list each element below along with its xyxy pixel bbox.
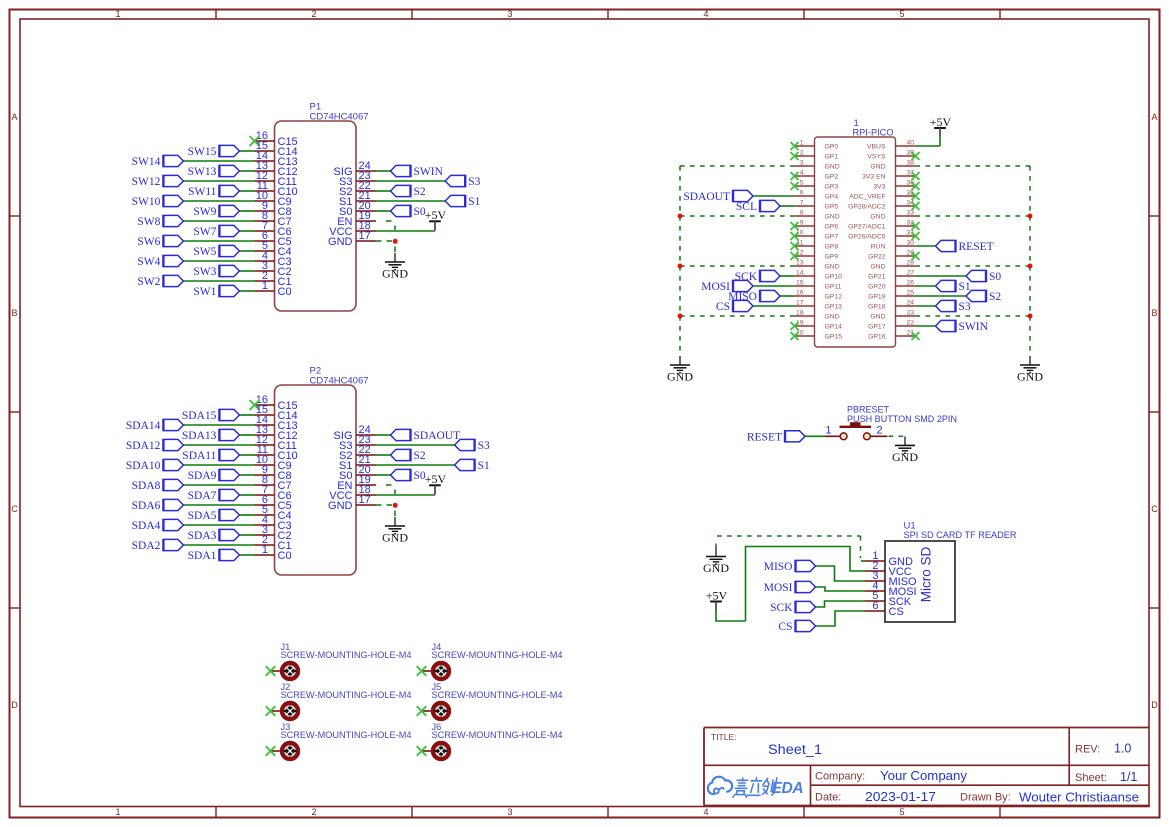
svg-text:SCREW-MOUNTING-HOLE-M4: SCREW-MOUNTING-HOLE-M4 bbox=[432, 690, 563, 700]
net flag S3 bbox=[455, 439, 490, 452]
junction dot on right GND bus bbox=[1028, 214, 1033, 219]
svg-text:SW3: SW3 bbox=[193, 266, 216, 278]
svg-text:GP2: GP2 bbox=[825, 174, 839, 181]
net flag SDA14 bbox=[126, 419, 184, 432]
svg-text:GP1: GP1 bbox=[825, 154, 839, 161]
wire SW10 to P1 pin 10 bbox=[183, 200, 254, 202]
svg-text:GP5: GP5 bbox=[825, 204, 839, 211]
RPI-PICO pin 25 (GP19) bbox=[868, 290, 915, 301]
wire SDA8 to P2 pin 8 bbox=[183, 484, 254, 486]
svg-text:3: 3 bbox=[800, 160, 804, 167]
mounting hole J3 symbol bbox=[271, 743, 298, 759]
net flag SDA11 bbox=[182, 449, 239, 462]
wire SDA14 to P2 pin 14 bbox=[183, 424, 254, 426]
svg-text:+5V: +5V bbox=[425, 472, 447, 486]
svg-text:3V3 EN: 3V3 EN bbox=[862, 174, 886, 181]
svg-text:GND: GND bbox=[825, 314, 840, 321]
wire +5V to U1 VCC pin bbox=[716, 547, 865, 622]
wire P2 to net flag S3 bbox=[376, 444, 455, 446]
P1 pin 21 (S1) bbox=[339, 190, 376, 208]
net flag SW11 bbox=[188, 185, 239, 198]
RPI-PICO pin 6 (GP4) bbox=[795, 190, 839, 201]
wire SCK to RPI-PICO bbox=[780, 275, 795, 277]
P1 pin 1 (C0) bbox=[255, 280, 292, 298]
svg-text:SW2: SW2 bbox=[137, 276, 160, 288]
RPI-PICO pin 11 (GP8) bbox=[795, 240, 839, 251]
wire P1 to net flag SWIN bbox=[376, 170, 391, 172]
RPI-PICO pin 31 (GP26/ADC0) bbox=[848, 230, 915, 241]
svg-text:Micro SD: Micro SD bbox=[919, 547, 934, 603]
P1 pin 7 (C6) bbox=[255, 220, 292, 238]
svg-text:GP15: GP15 bbox=[825, 334, 843, 341]
P2 pin 24 (SIG) bbox=[334, 424, 376, 442]
svg-text:30: 30 bbox=[906, 240, 914, 247]
svg-text:MOSI: MOSI bbox=[701, 281, 730, 293]
no-connect X at RPI-PICO pin 34 bbox=[912, 202, 920, 210]
mounting hole J6 symbol bbox=[422, 743, 449, 759]
no-connect X at P1 pin 16 bbox=[250, 136, 260, 146]
dashed GND wire RPI-PICO pin 3 bbox=[680, 165, 795, 167]
dashed wire stub at P2 EN pin 19 bbox=[386, 484, 392, 486]
no-connect X at RPI-PICO pin 10 bbox=[791, 232, 799, 240]
P2 pin 5 (C4) bbox=[255, 504, 292, 522]
push button PBRESET symbol bbox=[825, 422, 887, 439]
svg-text:S2: S2 bbox=[414, 186, 426, 198]
net flag SW3 bbox=[193, 265, 239, 278]
svg-text:1: 1 bbox=[262, 280, 268, 292]
net flag SDA5 bbox=[188, 509, 240, 522]
RPI-PICO pin 1 (GP0) bbox=[795, 140, 839, 151]
wire P1 to net flag S1 bbox=[376, 200, 445, 202]
svg-text:Sheet_1: Sheet_1 bbox=[768, 742, 822, 757]
svg-text:4: 4 bbox=[703, 9, 708, 19]
svg-text:GP28/ADC2: GP28/ADC2 bbox=[848, 204, 886, 211]
svg-text:A: A bbox=[11, 112, 17, 122]
svg-text:RPI-PICO: RPI-PICO bbox=[853, 128, 894, 139]
svg-text:14: 14 bbox=[796, 270, 804, 277]
svg-text:GP14: GP14 bbox=[825, 324, 843, 331]
P2 pin 7 (C6) bbox=[255, 484, 292, 502]
multiplexer P1 CD74HC4067 body bbox=[275, 102, 369, 312]
microcontroller RPI-PICO body bbox=[815, 118, 896, 347]
svg-text:+5V: +5V bbox=[706, 588, 728, 602]
svg-text:TITLE:: TITLE: bbox=[711, 732, 737, 742]
svg-text:SDAOUT: SDAOUT bbox=[683, 191, 730, 203]
P2 pin 21 (S1) bbox=[339, 454, 376, 472]
net flag SDA2 bbox=[132, 539, 184, 552]
wire SW11 to P1 pin 11 bbox=[239, 190, 254, 192]
svg-text:GND: GND bbox=[892, 450, 918, 464]
no-connect X at RPI-PICO pin 1 bbox=[791, 142, 799, 150]
svg-text:SW15: SW15 bbox=[188, 146, 217, 158]
no-connect X at J5 bbox=[417, 706, 427, 716]
wire SDA15 to P2 pin 15 bbox=[239, 414, 254, 416]
wire SDA10 to P2 pin 10 bbox=[183, 464, 254, 466]
P2 pin 1 (C0) bbox=[255, 544, 292, 562]
net flag MISO bbox=[728, 290, 780, 303]
P1 pin 10 (C9) bbox=[255, 190, 292, 208]
RPI-PICO pin 19 (GP14) bbox=[795, 320, 843, 331]
svg-text:GP6: GP6 bbox=[825, 224, 839, 231]
svg-text:MOSI: MOSI bbox=[764, 582, 793, 594]
P2 pin 20 (S0) bbox=[339, 464, 376, 482]
mounting hole J5 labels bbox=[432, 682, 563, 700]
net flag SDA1 bbox=[188, 549, 240, 562]
title block frame bbox=[704, 728, 1149, 806]
svg-text:B: B bbox=[11, 308, 17, 318]
net flag RESET at push button bbox=[747, 430, 805, 443]
wire P1 to net flag S3 bbox=[376, 180, 445, 182]
RPI-PICO pin 35 (ADC_VREF) bbox=[849, 190, 915, 201]
net flag SDA15 bbox=[182, 409, 240, 422]
svg-text:CS: CS bbox=[889, 606, 904, 618]
wire SDA11 to P2 pin 11 bbox=[239, 454, 254, 456]
wire P1 VCC to +5V bbox=[376, 230, 435, 232]
net flag SW1 bbox=[193, 285, 239, 298]
net flag SCK at U1 bbox=[770, 601, 815, 614]
svg-text:17: 17 bbox=[796, 300, 804, 307]
junction dot at P2 GND net bbox=[393, 503, 398, 508]
no-connect X at RPI-PICO pin 12 bbox=[791, 252, 799, 260]
RPI-PICO pin 28 (GND) bbox=[870, 260, 915, 271]
net flag SDA12 bbox=[126, 439, 184, 452]
RPI-PICO pin 40 (VBUS) bbox=[867, 140, 916, 151]
svg-text:Date:: Date: bbox=[815, 792, 841, 804]
RPI-PICO pin 13 (GND) bbox=[795, 260, 840, 271]
wire SDA13 to P2 pin 13 bbox=[239, 434, 254, 436]
net flag S1 bbox=[445, 195, 480, 208]
no-connect X at J4 bbox=[417, 666, 427, 676]
svg-text:C0: C0 bbox=[278, 550, 292, 562]
ground symbol at push button bbox=[892, 436, 918, 464]
EasyEDA logo text bbox=[733, 778, 804, 797]
net flag SDA10 bbox=[126, 459, 184, 472]
no-connect X at RPI-PICO pin 36 bbox=[912, 182, 920, 190]
P1 pin 19 (EN) bbox=[337, 210, 376, 228]
ground symbol left of RPI-PICO bbox=[667, 356, 693, 384]
svg-text:CS: CS bbox=[778, 621, 792, 633]
svg-text:2: 2 bbox=[877, 425, 883, 437]
wire SDA3 to P2 pin 3 bbox=[239, 534, 254, 536]
P2 pin 18 (VCC) bbox=[329, 484, 376, 502]
wire MOSI flag to U1 bbox=[816, 587, 866, 591]
P2 pin 6 (C5) bbox=[255, 494, 292, 512]
RPI-PICO pin 21 (GP16) bbox=[868, 330, 915, 341]
svg-text:SW11: SW11 bbox=[188, 186, 217, 198]
RPI-PICO pin 20 (GP15) bbox=[795, 330, 843, 341]
svg-text:SDA12: SDA12 bbox=[126, 440, 161, 452]
svg-text:6: 6 bbox=[872, 600, 878, 612]
P1 pin 23 (S3) bbox=[339, 170, 376, 188]
svg-text:RUN: RUN bbox=[871, 244, 886, 251]
svg-text:GND: GND bbox=[703, 561, 729, 575]
svg-text:1: 1 bbox=[800, 140, 804, 147]
no-connect X at RPI-PICO pin 35 bbox=[912, 192, 920, 200]
svg-text:GP12: GP12 bbox=[825, 294, 843, 301]
wire SW12 to P1 pin 12 bbox=[183, 180, 254, 182]
dashed GND wire RPI-PICO pin 38 bbox=[916, 165, 1031, 167]
dashed wire push button pin 2 to ground bbox=[889, 435, 906, 437]
no-connect X at J3 bbox=[266, 746, 276, 756]
wire RPI-PICO to net flag S1 bbox=[916, 285, 936, 287]
svg-text:+5V: +5V bbox=[425, 208, 447, 222]
RPI-PICO pin 9 (GP6) bbox=[795, 220, 839, 231]
RPI-PICO pin 33 (GND) bbox=[870, 210, 915, 221]
net flag SW12 bbox=[132, 175, 184, 188]
wire SDA4 to P2 pin 4 bbox=[183, 524, 254, 526]
title block Company field bbox=[815, 769, 968, 783]
wire P2 to net flag S1 bbox=[376, 464, 455, 466]
svg-text:SCK: SCK bbox=[770, 602, 793, 614]
svg-text:2: 2 bbox=[800, 150, 804, 157]
no-connect X at RPI-PICO pin 37 bbox=[912, 172, 920, 180]
svg-text:S0: S0 bbox=[989, 271, 1001, 283]
wire SW13 to P1 pin 13 bbox=[239, 170, 254, 172]
P1 pin 3 (C2) bbox=[255, 260, 292, 278]
svg-text:CD74HC4067: CD74HC4067 bbox=[310, 376, 369, 387]
P1 pin 24 (SIG) bbox=[334, 160, 376, 178]
wire RPI-PICO to net flag S2 bbox=[916, 295, 967, 297]
P2 pin 13 (C12) bbox=[255, 424, 298, 442]
svg-text:ADC_VREF: ADC_VREF bbox=[849, 194, 885, 201]
net flag SWIN bbox=[391, 165, 444, 178]
svg-text:SCL: SCL bbox=[736, 201, 757, 213]
svg-text:GP0: GP0 bbox=[825, 144, 839, 151]
+5V power symbol at P1 bbox=[425, 208, 447, 231]
no-connect X at RPI-PICO pin 19 bbox=[791, 322, 799, 330]
wire MOSI to RPI-PICO bbox=[753, 285, 795, 287]
no-connect X at RPI-PICO pin 39 bbox=[912, 152, 920, 160]
RPI-PICO pin 26 (GP20) bbox=[868, 280, 915, 291]
svg-text:SDA13: SDA13 bbox=[182, 430, 217, 442]
wire P2 to net flag S2 bbox=[376, 454, 391, 456]
net flag SW6 bbox=[137, 235, 183, 248]
wire SDA6 to P2 pin 6 bbox=[183, 504, 254, 506]
svg-text:GP27/ADC1: GP27/ADC1 bbox=[848, 224, 886, 231]
svg-text:RESET: RESET bbox=[959, 241, 994, 253]
dashed GND bus left vertical bbox=[679, 166, 681, 352]
svg-text:S1: S1 bbox=[478, 460, 490, 472]
svg-text:SCREW-MOUNTING-HOLE-M4: SCREW-MOUNTING-HOLE-M4 bbox=[281, 650, 412, 660]
svg-text:SW12: SW12 bbox=[132, 176, 161, 188]
mounting hole J4 symbol bbox=[422, 663, 449, 679]
title block REV field bbox=[1075, 742, 1131, 756]
wire P2 VCC to +5V bbox=[376, 494, 435, 496]
wire SDA12 to P2 pin 12 bbox=[183, 444, 254, 446]
svg-text:SW13: SW13 bbox=[188, 166, 217, 178]
wire SW9 to P1 pin 9 bbox=[239, 210, 254, 212]
svg-text:17: 17 bbox=[359, 494, 371, 506]
svg-text:SDA8: SDA8 bbox=[132, 480, 161, 492]
net flag SDA6 bbox=[132, 499, 184, 512]
dashed GND wire RPI-PICO pin 13 bbox=[680, 265, 795, 267]
RPI-PICO pin 39 (VSYS) bbox=[867, 150, 915, 161]
svg-text:GND: GND bbox=[870, 214, 885, 221]
dashed wire segment near P2 VCC bbox=[394, 490, 396, 495]
net flag S2 bbox=[391, 185, 426, 198]
svg-text:GND: GND bbox=[667, 370, 693, 384]
svg-text:SW9: SW9 bbox=[193, 206, 216, 218]
RPI-PICO pin 29 (GP22) bbox=[868, 250, 915, 261]
wire SW14 to P1 pin 14 bbox=[183, 160, 254, 162]
wire SW6 to P1 pin 6 bbox=[183, 240, 254, 242]
svg-text:4: 4 bbox=[800, 170, 804, 177]
P1 pin 20 (S0) bbox=[339, 200, 376, 218]
P1 pin 2 (C1) bbox=[255, 270, 292, 288]
wire P2 to net flag S0 bbox=[376, 474, 391, 476]
no-connect X at J1 bbox=[266, 666, 276, 676]
svg-text:16: 16 bbox=[796, 290, 804, 297]
wire MISO to RPI-PICO bbox=[780, 295, 795, 297]
EasyEDA logo cloud icon bbox=[708, 777, 732, 795]
RPI-PICO pin 22 (GP17) bbox=[868, 320, 915, 331]
net flag SCK bbox=[735, 270, 780, 283]
SD card reader U1 labels bbox=[904, 521, 1017, 541]
dashed wire at P1 GND pin 17 bbox=[376, 240, 392, 242]
no-connect X at RPI-PICO pin 32 bbox=[912, 222, 920, 230]
P2 pin 9 (C8) bbox=[255, 464, 292, 482]
P2 pin 8 (C7) bbox=[255, 474, 292, 492]
svg-text:SW7: SW7 bbox=[193, 226, 216, 238]
svg-text:1.0: 1.0 bbox=[1114, 742, 1131, 756]
svg-text:RESET: RESET bbox=[747, 431, 782, 443]
wire MISO flag to U1 bbox=[816, 566, 866, 581]
mounting hole J2 symbol bbox=[271, 703, 298, 719]
svg-text:GP3: GP3 bbox=[825, 184, 839, 191]
svg-text:2: 2 bbox=[311, 807, 316, 817]
wire SW3 to P1 pin 3 bbox=[239, 270, 254, 272]
net flag MISO at U1 bbox=[764, 560, 816, 573]
P1 pin 22 (S2) bbox=[339, 180, 376, 198]
svg-text:SW4: SW4 bbox=[137, 256, 160, 268]
junction dot on left GND bus bbox=[678, 314, 683, 319]
svg-text:GP9: GP9 bbox=[825, 254, 839, 261]
wire RPI-PICO to net flag SWIN bbox=[916, 325, 936, 327]
dashed wire U1 GND pin to ground bbox=[717, 536, 865, 561]
dashed wire segment near P1 VCC bbox=[394, 226, 396, 231]
+5V power symbol at P2 bbox=[425, 472, 447, 495]
dashed GND wire RPI-PICO pin 18 bbox=[680, 315, 795, 317]
ground symbol below P2 bbox=[382, 517, 408, 545]
mounting hole J4 labels bbox=[432, 642, 563, 660]
net flag S0 bbox=[391, 205, 426, 218]
RPI-PICO pin 7 (GP5) bbox=[795, 200, 839, 211]
ground symbol right of RPI-PICO bbox=[1017, 356, 1043, 384]
P2 pin 19 (EN) bbox=[337, 474, 376, 492]
svg-text:SDA14: SDA14 bbox=[126, 420, 161, 432]
U1 pin 3 (MISO) bbox=[865, 570, 917, 588]
P2 pin 14 (C13) bbox=[255, 414, 298, 432]
junction dot on left GND bus bbox=[678, 214, 683, 219]
no-connect X at RPI-PICO pin 11 bbox=[791, 242, 799, 250]
net flag SW2 bbox=[137, 275, 183, 288]
svg-text:25: 25 bbox=[906, 290, 914, 297]
svg-text:13: 13 bbox=[796, 260, 804, 267]
svg-text:GP26/ADC0: GP26/ADC0 bbox=[848, 234, 886, 241]
svg-text:GP19: GP19 bbox=[868, 294, 886, 301]
svg-text:GND: GND bbox=[825, 214, 840, 221]
P2 pin 11 (C10) bbox=[255, 444, 298, 462]
net flag SW7 bbox=[193, 225, 239, 238]
svg-text:3V3: 3V3 bbox=[873, 184, 885, 191]
ground symbol below P1 bbox=[382, 253, 408, 281]
P1 pin 5 (C4) bbox=[255, 240, 292, 258]
svg-text:GND: GND bbox=[825, 164, 840, 171]
P1 pin 18 (VCC) bbox=[329, 220, 376, 238]
RPI-PICO pin 5 (GP3) bbox=[795, 180, 839, 191]
net flag SW15 bbox=[188, 145, 240, 158]
net flag SW5 bbox=[193, 245, 239, 258]
dashed wire stub at P1 EN pin 19 bbox=[386, 220, 392, 222]
svg-text:SDA10: SDA10 bbox=[126, 460, 161, 472]
SD card reader U1 body bbox=[885, 541, 955, 622]
svg-text:5: 5 bbox=[899, 807, 904, 817]
RPI-PICO pin 8 (GND) bbox=[795, 210, 840, 221]
RPI-PICO pin 37 (3V3 EN) bbox=[862, 170, 915, 181]
RPI-PICO pin 2 (GP1) bbox=[795, 150, 839, 161]
junction dot at P1 GND net bbox=[393, 239, 398, 244]
RPI-PICO pin 18 (GND) bbox=[795, 310, 840, 321]
+5V power symbol left of U1 bbox=[706, 588, 728, 611]
RPI-PICO pin 27 (GP21) bbox=[868, 270, 915, 281]
svg-text:GP18: GP18 bbox=[868, 304, 886, 311]
svg-text:26: 26 bbox=[906, 280, 914, 287]
svg-text:SDA1: SDA1 bbox=[188, 550, 217, 562]
U1 pin 4 (MOSI) bbox=[865, 580, 917, 598]
svg-text:1/1: 1/1 bbox=[1120, 770, 1137, 784]
wire RPI-PICO to net flag RESET bbox=[916, 245, 936, 247]
svg-text:D: D bbox=[11, 700, 18, 710]
svg-text:S3: S3 bbox=[478, 440, 490, 452]
svg-text:REV:: REV: bbox=[1075, 744, 1100, 756]
svg-text:GP8: GP8 bbox=[825, 244, 839, 251]
wire SDA5 to P2 pin 5 bbox=[239, 514, 254, 516]
title block Drawn By field bbox=[960, 790, 1139, 805]
wire SDA2 to P2 pin 2 bbox=[183, 544, 254, 546]
svg-text:9: 9 bbox=[800, 220, 804, 227]
svg-text:VBUS: VBUS bbox=[867, 144, 886, 151]
svg-text:GND: GND bbox=[825, 264, 840, 271]
RPI-PICO pin 16 (GP12) bbox=[795, 290, 843, 301]
U1 pin 5 (SCK) bbox=[865, 590, 912, 608]
net flag S1 bbox=[936, 280, 971, 293]
wire SDA9 to P2 pin 9 bbox=[239, 474, 254, 476]
multiplexer P2 CD74HC4067 body bbox=[275, 366, 369, 576]
title block TITLE field bbox=[711, 732, 822, 757]
no-connect X at J2 bbox=[266, 706, 276, 716]
U1 pin 2 (VCC) bbox=[865, 560, 912, 578]
net flag SDAOUT bbox=[683, 190, 753, 203]
RPI-PICO pin 4 (GP2) bbox=[795, 170, 839, 181]
svg-text:GP4: GP4 bbox=[825, 194, 839, 201]
net flag RESET bbox=[936, 240, 994, 253]
net flag SDA9 bbox=[188, 469, 240, 482]
P2 pin 16 (C15) bbox=[255, 394, 298, 412]
svg-text:SW1: SW1 bbox=[193, 286, 216, 298]
U1 pin 6 (CS) bbox=[865, 600, 904, 618]
svg-text:5: 5 bbox=[800, 180, 804, 187]
RPI-PICO pin 23 (GND) bbox=[870, 310, 915, 321]
net flag SWIN bbox=[936, 320, 989, 333]
P1 pin 8 (C7) bbox=[255, 210, 292, 228]
svg-text:1: 1 bbox=[115, 807, 120, 817]
svg-text:SCREW-MOUNTING-HOLE-M4: SCREW-MOUNTING-HOLE-M4 bbox=[432, 730, 563, 740]
P2 pin 15 (C14) bbox=[255, 404, 298, 422]
net flag SW13 bbox=[188, 165, 240, 178]
net flag SW14 bbox=[132, 155, 184, 168]
P1 pin 17 (GND) bbox=[328, 230, 376, 248]
wire P2 to net flag SDAOUT bbox=[376, 434, 391, 436]
